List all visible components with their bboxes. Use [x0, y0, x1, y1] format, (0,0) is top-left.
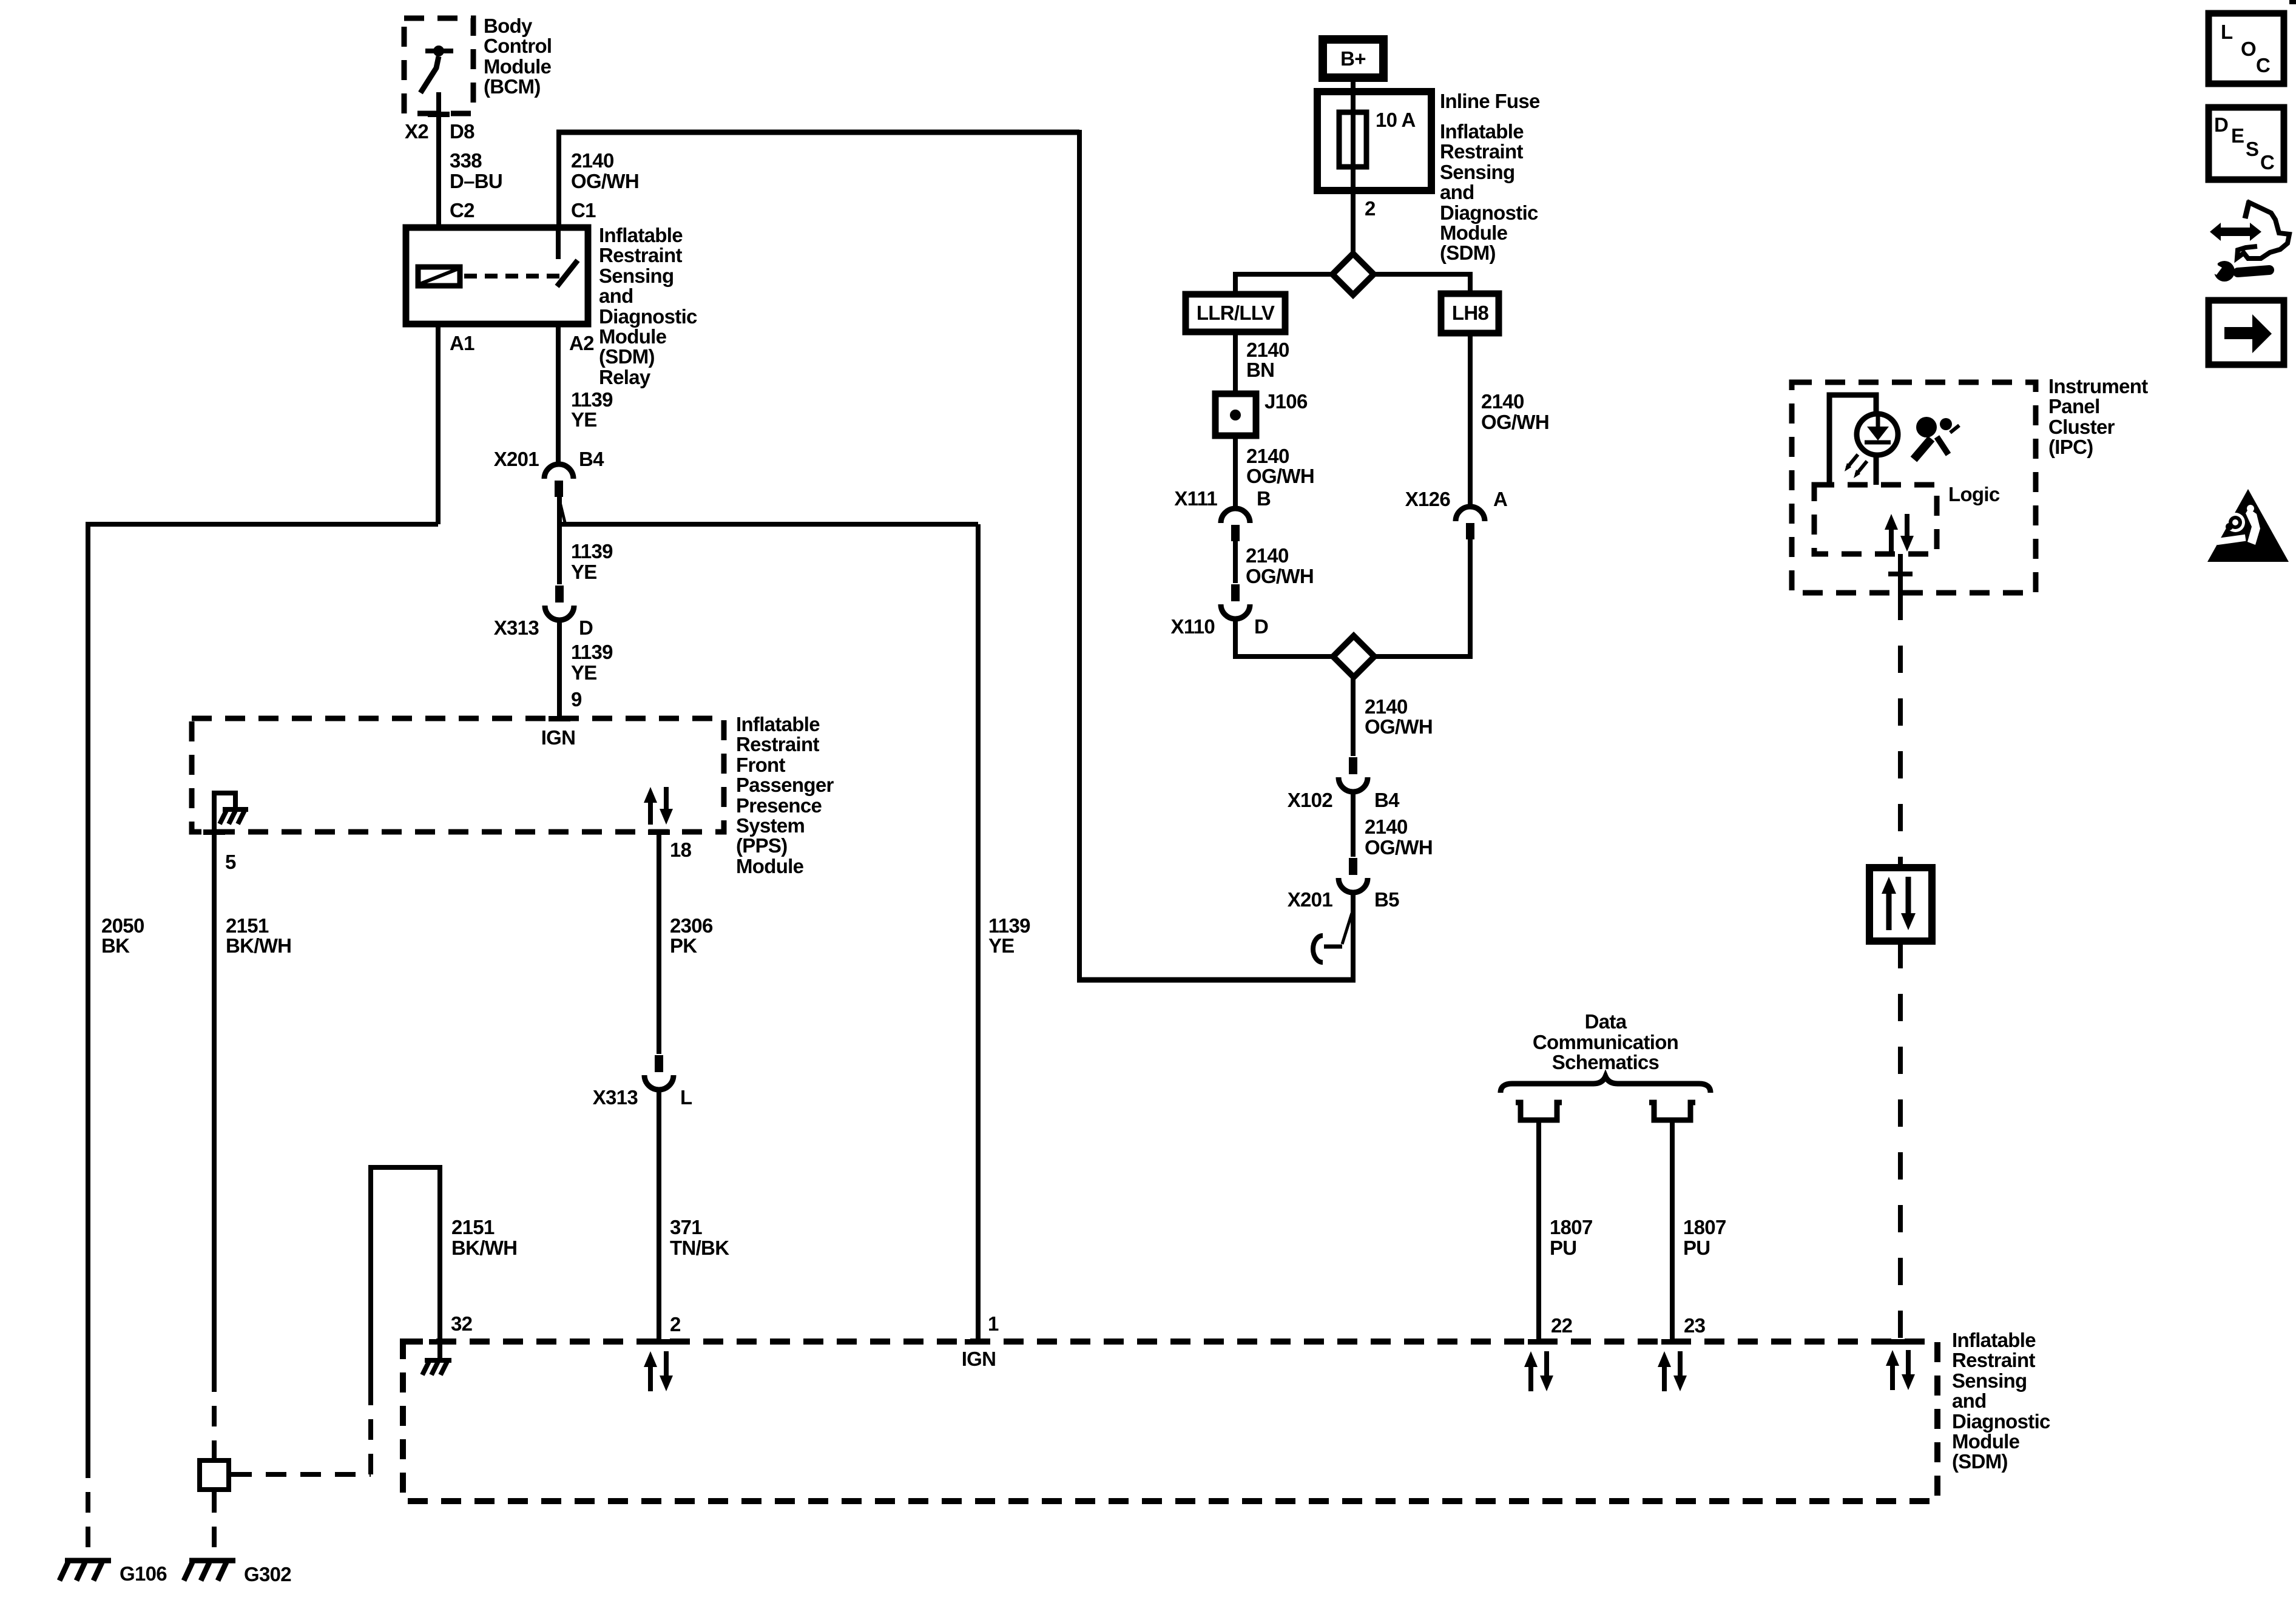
svg-text:(SDM): (SDM) — [599, 345, 655, 368]
wire left vertical 2050 BK solid — [86, 522, 90, 1457]
svg-text:Restraint: Restraint — [1952, 1349, 2035, 1371]
svg-text:X313: X313 — [494, 616, 539, 639]
svg-text:System: System — [736, 814, 805, 837]
svg-text:OG/WH: OG/WH — [1365, 715, 1433, 738]
svg-text:Module: Module — [484, 55, 552, 78]
svg-text:J106: J106 — [1264, 390, 1308, 413]
connector X313 L — [644, 1055, 674, 1090]
svg-text:(SDM): (SDM) — [1440, 241, 1496, 264]
ground G302 — [184, 1561, 235, 1581]
splice diamond 1 — [1332, 254, 1374, 295]
connector X111 B — [1221, 508, 1250, 541]
wire 1807 PU (pin 22) — [1536, 1120, 1541, 1342]
page artifact mark — [2289, 0, 2296, 4]
fuse SDM destination label — [1440, 120, 1538, 264]
svg-text:32: 32 — [451, 1312, 473, 1335]
svg-text:Body: Body — [484, 15, 533, 37]
svg-text:D–BU: D–BU — [450, 170, 502, 192]
wire below B4 with branch — [559, 496, 565, 584]
airbag caution triangle — [2207, 489, 2289, 562]
connector X126 A — [1456, 507, 1485, 539]
svg-text:2306: 2306 — [670, 914, 713, 937]
svg-text:Relay: Relay — [599, 366, 651, 388]
wire relay C1 up (2140 OG/WH) — [556, 132, 561, 228]
svg-text:1139: 1139 — [988, 914, 1030, 937]
wire BCM pin D8 to relay C2 (338 D-BU) — [436, 92, 441, 228]
svg-text:1139: 1139 — [571, 388, 613, 411]
connector X110 D labels — [1171, 615, 1269, 638]
connector X201 B5 — [1339, 858, 1368, 893]
go-to arrow icon box — [2209, 300, 2284, 365]
svg-text:X313: X313 — [593, 1086, 638, 1109]
svg-text:O: O — [2241, 38, 2256, 60]
SDM serial pin tick — [1889, 1339, 1911, 1345]
svg-text:X201: X201 — [494, 448, 539, 470]
wire horizontal to left side — [88, 522, 438, 527]
svg-text:IGN: IGN — [962, 1348, 996, 1370]
wire PPS pin 18 down 2306 PK — [657, 834, 661, 1054]
svg-text:and: and — [1952, 1389, 1987, 1412]
wire 1139 YE labels (A2) — [571, 388, 613, 431]
connector X110 D — [1221, 584, 1250, 619]
svg-text:X126: X126 — [1405, 488, 1451, 510]
svg-text:Front: Front — [736, 754, 786, 776]
svg-text:LLR/LLV: LLR/LLV — [1197, 302, 1275, 324]
BCM pin tick — [428, 112, 450, 117]
PPS module dashed box — [192, 718, 724, 832]
svg-text:LH8: LH8 — [1452, 302, 1489, 324]
wire left vertical 2050 BK dashed — [86, 1457, 90, 1557]
svg-text:X110: X110 — [1171, 615, 1215, 638]
svg-text:Panel: Panel — [2048, 395, 2100, 417]
connector X2 pin D8 labels — [405, 120, 474, 143]
svg-text:2140: 2140 — [1365, 695, 1408, 718]
svg-text:OG/WH: OG/WH — [571, 170, 639, 192]
LED emission arrows — [1845, 454, 1867, 478]
svg-text:BK/WH: BK/WH — [451, 1237, 517, 1259]
svg-text:YE: YE — [571, 661, 597, 684]
svg-text:Diagnostic: Diagnostic — [599, 305, 697, 328]
brace — [1501, 1076, 1710, 1093]
svg-text:A1: A1 — [450, 332, 474, 354]
wire 2050 BK labels — [101, 914, 144, 957]
Logic dashed box — [1814, 485, 1937, 554]
Instrument Panel Cluster dashed box — [1792, 382, 2036, 593]
svg-text:B4: B4 — [1374, 789, 1400, 811]
wire 2140 OG/WH labels (LH8) — [1481, 390, 1549, 433]
svg-text:BK: BK — [101, 934, 130, 957]
svg-text:X111: X111 — [1174, 487, 1217, 510]
SDM pin 22 arrows — [1524, 1351, 1553, 1391]
wire relay A1 down (2050 BK) — [436, 324, 441, 524]
svg-text:(PPS): (PPS) — [736, 834, 788, 857]
svg-text:Inline Fuse: Inline Fuse — [1440, 90, 1540, 112]
wire 2140 OG/WH labels (J106) — [1246, 445, 1314, 487]
svg-text:C: C — [2256, 54, 2270, 76]
svg-text:1: 1 — [988, 1312, 999, 1335]
wire 2306 PK labels — [670, 914, 713, 957]
relay switch contact and blade — [557, 228, 578, 286]
LLR/LLV box — [1186, 294, 1285, 332]
connector X102 B4 — [1339, 757, 1368, 792]
svg-text:Communication: Communication — [1533, 1031, 1678, 1053]
svg-text:BK/WH: BK/WH — [226, 934, 291, 957]
connector X201 B4 labels — [494, 448, 604, 470]
SDM pin 23 arrows — [1658, 1351, 1687, 1391]
connector X126 A labels — [1405, 488, 1507, 510]
wire X313 D to PPS pin 9 (1139 YE) — [557, 623, 562, 718]
svg-text:X102: X102 — [1288, 789, 1333, 811]
SDM dashed box — [403, 1342, 1937, 1501]
wire 2140 OG/WH labels (diamond2) — [1365, 695, 1433, 738]
PPS internal ground symbol — [220, 809, 248, 824]
wire 1139 YE to SDM pin 1 — [976, 524, 981, 1342]
PPS internal ground wiring — [214, 793, 235, 832]
svg-text:IGN: IGN — [541, 726, 576, 749]
wire splice to G302 dashed — [212, 1492, 217, 1557]
PPS module label — [736, 713, 834, 877]
svg-text:2140: 2140 — [1246, 339, 1289, 361]
svg-text:D: D — [1254, 615, 1268, 638]
svg-text:10 A: 10 A — [1376, 109, 1416, 131]
svg-text:Sensing: Sensing — [1952, 1369, 2027, 1392]
wire branch horizontal 1139 YE to pin 1 drop — [561, 522, 978, 527]
wire X313 L to SDM pin 2 (371 TN/BK) — [657, 1092, 661, 1342]
svg-text:2140: 2140 — [1246, 544, 1289, 567]
svg-text:2140: 2140 — [1365, 815, 1408, 838]
wire diamond1 to LLR/LLV — [1235, 274, 1332, 295]
svg-text:Module: Module — [1952, 1430, 2020, 1453]
svg-text:Module: Module — [1440, 221, 1508, 244]
splice square junction — [200, 1460, 229, 1490]
svg-text:2140: 2140 — [571, 149, 614, 172]
wire LH8 to X126 (2140 OG/WH) — [1468, 333, 1473, 505]
svg-text:B+: B+ — [1340, 47, 1366, 70]
svg-text:2151: 2151 — [451, 1216, 495, 1238]
relay box: Inflatable Restraint SDM Relay — [406, 228, 588, 324]
svg-text:1139: 1139 — [571, 641, 613, 663]
SDM pin 22 tick — [1528, 1339, 1550, 1345]
svg-text:Presence: Presence — [736, 794, 822, 817]
SDM pin 32 tick — [429, 1339, 451, 1345]
svg-text:2: 2 — [1365, 197, 1376, 220]
SDM pin 23 tick — [1661, 1339, 1683, 1345]
svg-text:1139: 1139 — [571, 540, 613, 562]
relay label (SDM Relay) — [599, 224, 697, 388]
svg-text:Passenger: Passenger — [736, 774, 834, 796]
wire 2140 OG/WH labels (X111) — [1246, 544, 1314, 587]
svg-text:OG/WH: OG/WH — [1481, 411, 1549, 433]
Logic box arrows — [1885, 514, 1914, 552]
svg-text:and: and — [599, 285, 633, 307]
svg-text:Diagnostic: Diagnostic — [1440, 201, 1538, 224]
svg-text:X2: X2 — [405, 120, 428, 143]
relay coil-switch dashed link — [464, 274, 564, 279]
svg-text:L: L — [680, 1086, 692, 1109]
SDM serial pin arrows — [1886, 1350, 1915, 1390]
svg-text:B: B — [1257, 487, 1271, 510]
svg-text:371: 371 — [670, 1216, 702, 1238]
svg-text:23: 23 — [1684, 1314, 1706, 1337]
svg-text:G106: G106 — [120, 1562, 167, 1585]
wire 2140 OG/WH labels (X102) — [1365, 815, 1433, 859]
connector X111 B labels — [1174, 487, 1271, 510]
svg-text:Module: Module — [599, 325, 667, 348]
SDM internal ground at pin 32 — [422, 1342, 451, 1375]
wire X102 to X201 B5 (2140 OG/WH) — [1351, 792, 1356, 857]
wire diamond1 to LH8 — [1374, 274, 1470, 295]
wire X111 to X110 (2140 OG/WH) — [1233, 540, 1238, 583]
wire 338 D-BU labels — [450, 149, 502, 221]
wire right vertical 2140 OG/WH — [1077, 130, 1082, 980]
svg-text:YE: YE — [988, 934, 1015, 957]
connector X313 D — [545, 586, 574, 620]
svg-text:(SDM): (SDM) — [1952, 1450, 2008, 1473]
SDM pin 2 tick — [648, 1339, 670, 1345]
svg-text:OG/WH: OG/WH — [1246, 565, 1314, 587]
svg-text:18: 18 — [670, 839, 692, 861]
LH8 box — [1441, 294, 1499, 333]
PPS pin 5 tick — [203, 829, 225, 835]
svg-text:1807: 1807 — [1683, 1216, 1726, 1238]
wire splice to loop dashed — [231, 1396, 371, 1474]
svg-text:22: 22 — [1551, 1314, 1573, 1337]
B5 pigtail curl — [1313, 913, 1352, 962]
IPC label — [2048, 375, 2148, 458]
svg-text:Inflatable: Inflatable — [736, 713, 820, 735]
Data Communication Schematics label — [1533, 1010, 1678, 1073]
svg-text:Cluster: Cluster — [2048, 416, 2115, 438]
Body Control Module (BCM) dashed box — [404, 18, 473, 113]
IPC pin tick — [1888, 572, 1913, 576]
svg-text:PU: PU — [1683, 1237, 1710, 1259]
svg-text:PU: PU — [1550, 1237, 1576, 1259]
svg-text:S: S — [2246, 138, 2258, 160]
svg-text:A2: A2 — [569, 332, 594, 354]
SDM label — [1952, 1329, 2050, 1473]
splice diamond 2 — [1333, 636, 1374, 677]
svg-text:B5: B5 — [1374, 888, 1399, 911]
DESC icon box — [2209, 107, 2284, 180]
wire top horizontal 2140 OG/WH — [556, 130, 1079, 135]
svg-text:B4: B4 — [579, 448, 604, 470]
svg-text:PK: PK — [670, 934, 697, 957]
wire 1139 YE labels (mid) — [571, 540, 613, 583]
off-page terminal (pin 23 wire) — [1649, 1102, 1695, 1120]
wire 2151 BK/WH labels (lower) — [451, 1216, 517, 1259]
repair instructions icon (hand with arrow and wrench) — [2205, 201, 2289, 282]
connector X313 L labels — [593, 1086, 692, 1109]
wire LLR/LLV to J106 (2140 BN) — [1233, 332, 1238, 395]
splice J106 box — [1215, 394, 1256, 436]
svg-text:Control: Control — [484, 35, 552, 57]
wire IPC logic to pin — [1898, 554, 1903, 593]
svg-text:OG/WH: OG/WH — [1365, 836, 1433, 859]
connector X102 B4 labels — [1288, 789, 1400, 811]
wire IPC serial data dashed — [1898, 593, 1903, 868]
svg-text:338: 338 — [450, 149, 482, 172]
wire 2140 OG/WH labels at C1 — [571, 149, 639, 221]
svg-text:Sensing: Sensing — [599, 265, 674, 287]
BCM internal switch — [420, 46, 453, 93]
svg-text:Diagnostic: Diagnostic — [1952, 1410, 2050, 1433]
svg-text:Restraint: Restraint — [736, 733, 819, 755]
SDM pin 2 arrows — [644, 1351, 673, 1391]
svg-text:9: 9 — [571, 688, 582, 711]
wire 2151 BK/WH labels — [226, 914, 291, 957]
connector X201 B5 labels — [1288, 888, 1399, 911]
wire J106 to X111 (2140 OG/WH) — [1233, 436, 1238, 506]
svg-text:Logic: Logic — [1948, 483, 2000, 505]
svg-text:OG/WH: OG/WH — [1246, 465, 1314, 487]
Inline Fuse box 10 A — [1317, 92, 1431, 191]
svg-text:(IPC): (IPC) — [2048, 436, 2093, 458]
svg-text:YE: YE — [571, 561, 597, 583]
svg-text:C: C — [2260, 151, 2274, 174]
SDM pin 1 tick — [965, 1339, 987, 1345]
svg-text:C1: C1 — [571, 199, 596, 221]
LOC icon box — [2209, 13, 2284, 84]
wire 2151 BK/WH dashed to splice — [212, 1371, 217, 1458]
off-page terminal (pin 22 wire) — [1516, 1102, 1562, 1120]
PPS pin 9 tick — [549, 716, 570, 721]
wire 1139 YE labels (pin1) — [988, 914, 1030, 957]
svg-text:D: D — [579, 616, 593, 639]
wire 1807 PU labels (23) — [1683, 1216, 1726, 1259]
svg-text:YE: YE — [571, 408, 597, 431]
svg-text:A: A — [1493, 488, 1507, 510]
svg-text:5: 5 — [225, 851, 236, 873]
wire loop to SDM pin 32 (2151 BK/WH) — [371, 1167, 440, 1396]
svg-text:1807: 1807 — [1550, 1216, 1593, 1238]
PPS pin 18 arrows — [644, 787, 673, 825]
PPS pin 18 tick — [648, 829, 670, 835]
svg-text:L: L — [2221, 21, 2233, 43]
wire below B5 to bottom horizontal — [1351, 893, 1356, 980]
connector X201 B4 — [544, 464, 573, 497]
svg-text:C2: C2 — [450, 199, 474, 221]
svg-text:Inflatable: Inflatable — [1952, 1329, 2036, 1351]
fuse element — [1339, 112, 1366, 167]
svg-text:Inflatable: Inflatable — [599, 224, 683, 246]
svg-text:Instrument: Instrument — [2048, 375, 2148, 397]
wire X110 to diamond 2 — [1235, 619, 1333, 657]
BCM label — [484, 15, 552, 98]
svg-text:D: D — [2214, 113, 2228, 136]
svg-text:Inflatable: Inflatable — [1440, 120, 1524, 143]
wire 371 TN/BK labels — [670, 1216, 729, 1259]
wire X126 to diamond 2 — [1374, 538, 1470, 657]
svg-text:G302: G302 — [244, 1563, 291, 1585]
svg-text:(BCM): (BCM) — [484, 75, 541, 98]
svg-text:Module: Module — [736, 855, 804, 877]
wire 1807 PU labels (22) — [1550, 1216, 1593, 1259]
wire 2140 BN labels — [1246, 339, 1289, 381]
wire B+ to fuse and through to diamond — [1351, 78, 1356, 255]
battery feed B+ box — [1323, 39, 1383, 78]
relay coil — [418, 267, 460, 286]
wire relay A2 down 1139 YE — [556, 324, 561, 462]
wire diamond2 to X102 (2140 OG/WH) — [1351, 677, 1356, 756]
svg-text:BN: BN — [1246, 359, 1274, 381]
svg-text:D8: D8 — [450, 120, 474, 143]
svg-text:X201: X201 — [1288, 888, 1333, 911]
wire serial data dashed to SDM — [1898, 941, 1903, 1342]
svg-text:2140: 2140 — [1481, 390, 1524, 413]
serial data bidirectional box — [1869, 868, 1932, 941]
airbag warning icon — [1914, 417, 1959, 459]
svg-text:E: E — [2231, 124, 2244, 147]
IPC LED telltale circuit — [1829, 395, 1898, 485]
wire 1807 PU (pin 23) — [1670, 1120, 1675, 1342]
wire 1139 YE labels (low) — [571, 641, 613, 684]
svg-text:2151: 2151 — [226, 914, 269, 937]
svg-text:2: 2 — [670, 1313, 681, 1335]
svg-text:Sensing: Sensing — [1440, 161, 1514, 183]
svg-text:Restraint: Restraint — [599, 244, 682, 266]
svg-text:2140: 2140 — [1246, 445, 1289, 467]
svg-text:2050: 2050 — [101, 914, 144, 937]
svg-text:TN/BK: TN/BK — [670, 1237, 729, 1259]
svg-text:and: and — [1440, 181, 1474, 203]
svg-text:Restraint: Restraint — [1440, 140, 1523, 163]
wire PPS pin 5 down 2151 BK/WH solid — [212, 834, 217, 1371]
svg-text:Data: Data — [1585, 1010, 1627, 1033]
wire bottom horizontal 2140 OG/WH — [1077, 977, 1356, 983]
connector X313 D labels — [494, 616, 593, 639]
ground G106 — [59, 1561, 111, 1581]
relay pin labels A1 A2 — [450, 332, 594, 354]
